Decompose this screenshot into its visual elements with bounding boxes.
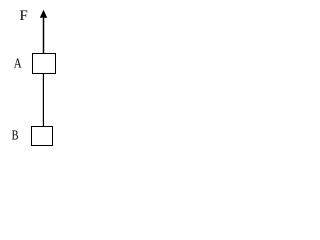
- background: [0, 0, 71, 153]
- svg-text:B: B: [12, 129, 19, 144]
- block A box: [33, 54, 56, 74]
- svg-text:F: F: [20, 8, 28, 24]
- block B box: [32, 127, 53, 146]
- force arrowhead: [40, 10, 47, 18]
- wire connecting A and B: [42, 74, 44, 127]
- svg-text:A: A: [14, 57, 23, 72]
- force arrow shaft: [43, 17, 45, 55]
